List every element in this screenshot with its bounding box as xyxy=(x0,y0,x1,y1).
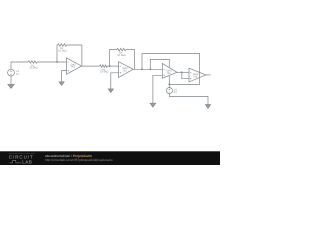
wire R3 to op-amp OA2 xyxy=(107,65,118,67)
wire feedback left R2 xyxy=(56,45,59,62)
op-amp OA1 xyxy=(67,58,82,74)
voltage source V1 xyxy=(8,69,15,76)
svg-text:741: 741 xyxy=(71,66,76,69)
resistor R3 xyxy=(100,65,108,68)
wire OA3 output to OA4 xyxy=(177,71,189,73)
node A junction dot xyxy=(56,61,58,63)
wire jog to OA4 plus input xyxy=(182,72,189,78)
node D junction dot xyxy=(149,68,151,70)
wire V1 top to R1 xyxy=(11,62,28,69)
op-amp OA4 xyxy=(189,68,206,82)
svg-text:10.0kΩ: 10.0kΩ xyxy=(117,54,125,57)
node C junction dot xyxy=(141,68,143,70)
svg-text:10.0kΩ: 10.0kΩ xyxy=(29,67,37,70)
wire OA1 output to R3 xyxy=(82,65,100,67)
plus mark OA4 xyxy=(190,78,191,79)
svg-text:LAB: LAB xyxy=(22,159,32,164)
op-amp OA2 xyxy=(119,62,134,78)
node B junction dot xyxy=(109,65,111,67)
node E junction dot xyxy=(168,84,170,86)
ground right xyxy=(205,105,210,109)
ground under OA1 xyxy=(59,82,64,86)
wire OA4 output stub xyxy=(206,74,211,76)
op-amp OA3 xyxy=(162,63,177,78)
wire long feedback top xyxy=(142,54,200,85)
minus mark OA3 xyxy=(163,68,164,70)
wire to OA3 V+ pin xyxy=(150,59,169,69)
CircuitLab logo xyxy=(9,154,36,165)
wire V2 bottom to ground right xyxy=(169,94,208,105)
labels xyxy=(16,47,199,94)
resistor R2 xyxy=(58,44,67,47)
wire OA3 plus input to ground xyxy=(153,75,162,103)
svg-text:741: 741 xyxy=(122,69,127,72)
svg-text:741: 741 xyxy=(166,72,171,75)
svg-text:10.0kΩ: 10.0kΩ xyxy=(100,71,108,74)
node F junction dot xyxy=(181,71,183,73)
svg-text:741: 741 xyxy=(193,76,198,79)
resistor R1 xyxy=(28,61,37,64)
wire feedback left R4 xyxy=(110,50,117,67)
resistor R4 xyxy=(117,48,126,51)
wire OA2 output to OA3 minus input xyxy=(133,68,162,70)
watermark text xyxy=(45,154,113,162)
ground under OA2 xyxy=(108,89,113,93)
ground under OA3 xyxy=(150,103,156,107)
watermark bar xyxy=(0,151,220,165)
wire OA2 plus input to ground xyxy=(111,73,119,89)
svg-text:5V: 5V xyxy=(16,73,19,76)
svg-text:http://circuitlab.com/c/f57ykk: http://circuitlab.com/c/f57ykkqvca52d/pr… xyxy=(45,158,113,162)
minus mark OA4 xyxy=(190,71,191,73)
ground under V1 xyxy=(8,85,14,89)
wire R1 to op-amp U1 minus input xyxy=(37,61,66,63)
plus mark OA2 xyxy=(120,72,121,73)
svg-text:5V: 5V xyxy=(174,91,177,94)
OA3 V- power stub to V2 xyxy=(168,76,170,88)
plus mark OA3 xyxy=(163,75,164,76)
plus mark OA1 xyxy=(68,70,69,71)
svg-text:10.0kΩ: 10.0kΩ xyxy=(58,49,66,52)
voltage source V2 xyxy=(166,88,172,94)
minus mark OA1 xyxy=(68,61,69,63)
minus mark OA2 xyxy=(120,65,121,67)
wire V1 bottom to ground xyxy=(10,76,12,85)
wire feedback right R2 to output xyxy=(67,45,82,66)
wire feedback right R4 to output xyxy=(126,50,134,70)
wire OA1 plus input to ground xyxy=(62,71,67,82)
